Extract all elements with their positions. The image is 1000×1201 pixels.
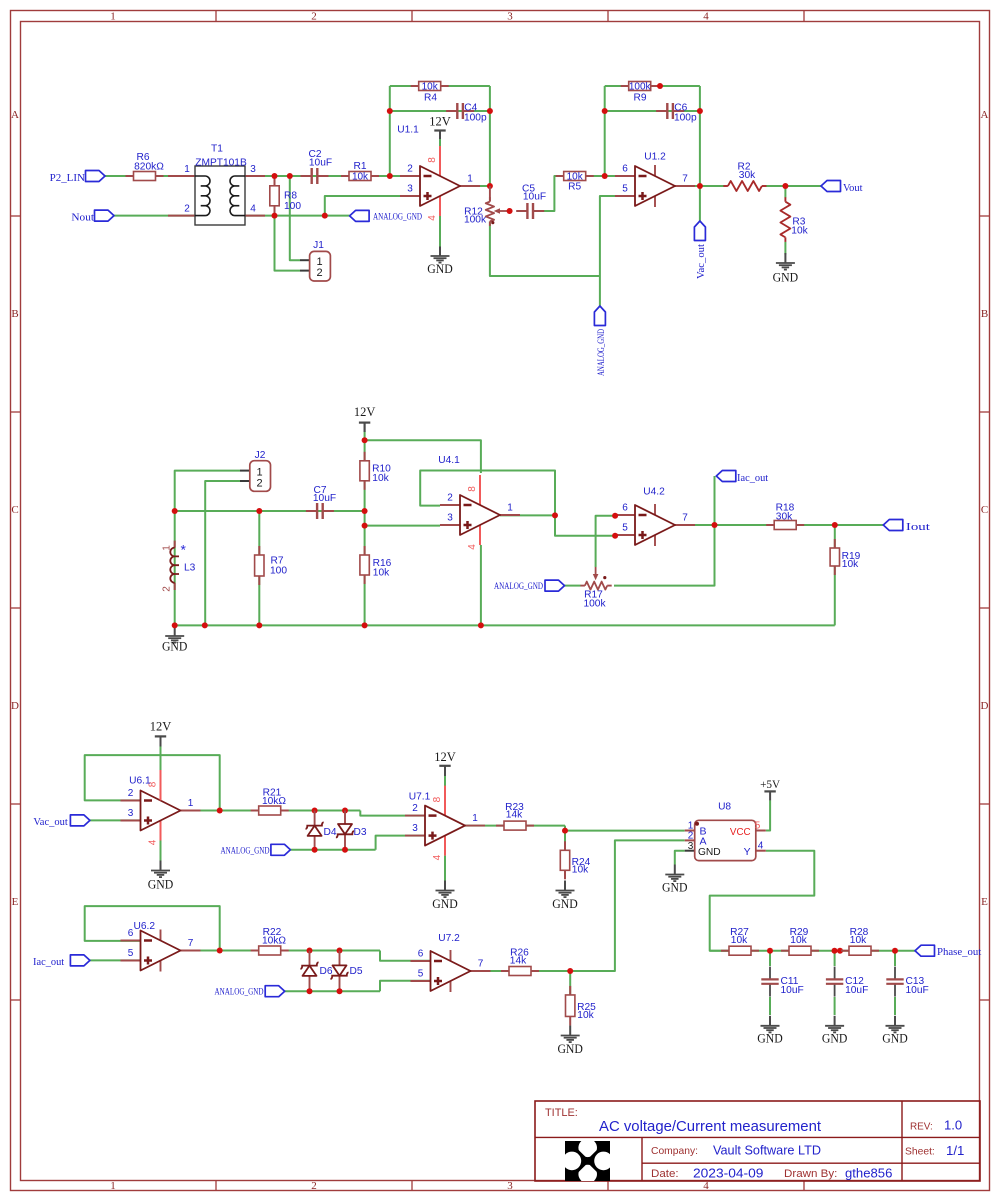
svg-text:GND: GND xyxy=(427,262,453,276)
svg-text:B: B xyxy=(981,308,988,320)
svg-text:Vout: Vout xyxy=(843,183,863,194)
svg-text:1.0: 1.0 xyxy=(944,1118,962,1133)
svg-text:100k: 100k xyxy=(464,215,487,226)
svg-text:1: 1 xyxy=(507,503,513,514)
net flag ANALOG_GND (row2) xyxy=(215,986,285,997)
wire Nout to T1 pin2 xyxy=(114,215,195,217)
svg-text:10uF: 10uF xyxy=(845,985,868,996)
junction n25 xyxy=(552,512,558,518)
svg-text:D3: D3 xyxy=(353,827,366,838)
resistor R7 xyxy=(255,546,288,585)
capacitor C13 xyxy=(886,967,928,997)
wire jog to R24 node xyxy=(564,826,566,831)
junction n10 xyxy=(602,173,608,179)
junction n27 xyxy=(612,513,618,519)
svg-text:10k: 10k xyxy=(372,473,389,484)
op-amp U6.1 xyxy=(121,771,201,846)
resistor R28 xyxy=(841,927,879,955)
svg-text:100k: 100k xyxy=(629,82,652,93)
svg-text:10uF: 10uF xyxy=(313,493,336,504)
svg-text:C: C xyxy=(981,504,988,516)
wire T1 pin4 to ANALOG_GND xyxy=(245,215,350,217)
svg-text:12V: 12V xyxy=(150,720,172,734)
wire R10-R16 column xyxy=(364,440,366,625)
svg-text:3: 3 xyxy=(250,164,256,175)
svg-text:A: A xyxy=(11,109,19,121)
connector J1 xyxy=(300,240,330,281)
ground (R25) xyxy=(557,1026,583,1057)
wire Y net to RC ladder xyxy=(710,851,815,951)
svg-text:1: 1 xyxy=(184,164,190,175)
svg-text:10k: 10k xyxy=(790,935,807,946)
wire U1.2 output to Vout a xyxy=(675,185,724,187)
junction n14 xyxy=(697,183,703,189)
resistor R9 xyxy=(621,82,659,104)
wire U1.2 feedback left xyxy=(604,86,606,176)
svg-text:D4: D4 xyxy=(323,827,336,838)
wire U4.1 pin4 to bus xyxy=(480,545,482,625)
wire R5 to U1.2 pin6 xyxy=(586,175,636,177)
svg-text:8: 8 xyxy=(467,486,478,492)
svg-text:4: 4 xyxy=(703,11,709,23)
svg-text:A: A xyxy=(700,836,707,848)
svg-text:3: 3 xyxy=(688,841,694,852)
junction n19 xyxy=(202,622,208,628)
svg-text:U1.1: U1.1 xyxy=(397,125,419,136)
wire R3 net a xyxy=(784,186,786,198)
ground (R24) xyxy=(552,881,578,912)
junction n12 xyxy=(602,108,608,114)
wire R24 column xyxy=(564,831,566,851)
ground (C11) xyxy=(757,1016,783,1046)
svg-text:30k: 30k xyxy=(739,170,756,181)
wire ANALOG_GND to R17 xyxy=(565,585,581,587)
svg-text:10k: 10k xyxy=(422,82,439,93)
svg-text:2: 2 xyxy=(311,1180,317,1192)
wire U1.2 output to Vout b xyxy=(766,185,821,187)
svg-text:3: 3 xyxy=(407,184,413,195)
junction n17 xyxy=(172,508,178,514)
power 12V (U7.1) xyxy=(434,750,456,775)
junction n40 xyxy=(307,988,313,994)
svg-text:gthe856: gthe856 xyxy=(845,1166,892,1181)
svg-text:1: 1 xyxy=(188,798,194,809)
svg-text:100p: 100p xyxy=(464,112,487,123)
svg-text:100: 100 xyxy=(270,565,287,576)
wire U4.1 feedback xyxy=(420,471,555,516)
svg-text:Company:: Company: xyxy=(651,1145,698,1157)
svg-text:2: 2 xyxy=(184,204,190,215)
svg-text:4: 4 xyxy=(432,854,443,860)
wire J2 pin1 net xyxy=(175,471,240,511)
wire U7.1 12V stub xyxy=(444,775,446,789)
resistor R21 xyxy=(251,787,289,815)
resistor R19 xyxy=(830,539,861,575)
svg-text:ANALOG_GND: ANALOG_GND xyxy=(221,845,270,855)
wire clamp bottom row 1 xyxy=(290,849,375,851)
svg-text:10k: 10k xyxy=(731,935,748,946)
svg-text:1: 1 xyxy=(110,1180,116,1192)
wire R7 column xyxy=(258,511,260,625)
potentiometer R12 xyxy=(464,197,494,226)
svg-text:*: * xyxy=(181,542,187,558)
svg-text:2: 2 xyxy=(311,11,317,23)
title block text xyxy=(545,1107,964,1181)
wire jog to U7.2 pin5 xyxy=(380,981,431,992)
power 12V (U6.1) xyxy=(150,720,172,746)
svg-text:U8: U8 xyxy=(718,802,731,813)
svg-text:E: E xyxy=(12,896,19,908)
svg-text:10k: 10k xyxy=(373,568,390,579)
capacitor C4 xyxy=(446,102,487,123)
junction n13 xyxy=(697,108,703,114)
svg-text:12V: 12V xyxy=(434,750,456,764)
svg-text:Sheet:: Sheet: xyxy=(905,1146,935,1158)
wire to U8 pin B xyxy=(565,830,685,832)
op-amp U7.1 xyxy=(405,786,485,861)
wire R9 row xyxy=(605,85,700,87)
potentiometer R17 xyxy=(580,582,611,610)
svg-text:U6.1: U6.1 xyxy=(129,776,151,787)
svg-text:D5: D5 xyxy=(349,966,362,977)
junction n42 xyxy=(567,968,573,974)
svg-text:2: 2 xyxy=(447,493,453,504)
wire Vac_out to U6.1 pin3 xyxy=(90,819,141,821)
wire U1.2 feedback right xyxy=(699,86,701,186)
svg-text:R9: R9 xyxy=(633,92,646,103)
svg-text:14k: 14k xyxy=(506,809,523,820)
wire U1.1 pin4 lower xyxy=(439,216,441,247)
junction n44 xyxy=(832,948,838,954)
net flag Vout xyxy=(821,181,863,194)
svg-text:Iac_out: Iac_out xyxy=(737,473,768,484)
svg-text:100p: 100p xyxy=(674,112,697,123)
net flag Vac_out (bottom) xyxy=(33,815,90,828)
svg-text:5: 5 xyxy=(755,821,761,832)
svg-text:2: 2 xyxy=(412,803,418,814)
wire C12 column xyxy=(834,951,836,966)
junction n5 xyxy=(387,173,393,179)
resistor R10 xyxy=(360,452,391,490)
ground (U8) xyxy=(662,865,688,895)
svg-text:5: 5 xyxy=(622,184,628,195)
svg-text:GND: GND xyxy=(162,640,188,654)
company logo xyxy=(563,1139,613,1184)
net flag ANALOG_GND (top) xyxy=(350,210,423,221)
wire R12 bottom to ANALOG_GND xyxy=(490,221,600,276)
svg-text:8: 8 xyxy=(432,796,443,802)
svg-text:100k: 100k xyxy=(583,599,606,610)
svg-text:Date:: Date: xyxy=(651,1168,679,1180)
svg-text:10kΩ: 10kΩ xyxy=(262,935,286,946)
svg-text:7: 7 xyxy=(478,959,484,970)
svg-text:10k: 10k xyxy=(352,172,369,183)
svg-text:8: 8 xyxy=(427,157,438,163)
wire Vac_out drop xyxy=(699,186,701,221)
svg-text:GND: GND xyxy=(662,880,688,894)
XOR gate U8 xyxy=(685,802,766,861)
svg-text:4: 4 xyxy=(250,204,256,215)
svg-text:5: 5 xyxy=(418,969,424,980)
wire 12V stub xyxy=(439,131,441,141)
svg-text:U7.2: U7.2 xyxy=(438,933,460,944)
svg-text:Vac_out: Vac_out xyxy=(33,817,67,828)
capacitor C7 xyxy=(306,485,336,519)
wire C11 column xyxy=(769,951,771,966)
junction n16 xyxy=(362,437,368,443)
junction n30 xyxy=(832,522,838,528)
svg-text:2023-04-09: 2023-04-09 xyxy=(693,1166,763,1181)
svg-text:U6.2: U6.2 xyxy=(134,921,156,932)
junction n38 xyxy=(307,948,313,954)
connector J2 xyxy=(240,450,271,491)
junction n33 xyxy=(342,808,348,814)
resistor R16 xyxy=(360,546,392,584)
svg-text:6: 6 xyxy=(622,164,628,175)
svg-text:3: 3 xyxy=(507,11,513,23)
svg-text:ANALOG_GND: ANALOG_GND xyxy=(596,329,606,376)
net flag Iac_out (bottom) xyxy=(33,955,90,968)
wire RC ladder row xyxy=(710,950,915,952)
op-amp U6.2 xyxy=(121,921,201,971)
svg-text:GND: GND xyxy=(557,1042,583,1056)
wire C12 lower xyxy=(834,997,836,1015)
svg-text:10k: 10k xyxy=(791,226,808,237)
wire C7 row xyxy=(175,510,365,512)
net flag Phase_out xyxy=(915,945,981,958)
junction n36 xyxy=(562,828,568,834)
wire 12V stem mid xyxy=(364,423,366,432)
svg-text:10uF: 10uF xyxy=(781,985,804,996)
resistor R3 xyxy=(780,197,808,242)
svg-text:30k: 30k xyxy=(776,512,793,523)
svg-text:D: D xyxy=(981,700,989,712)
transformer T1 ZMPT101B xyxy=(168,144,265,226)
svg-text:100: 100 xyxy=(284,201,301,212)
junction n3 xyxy=(272,213,278,219)
wire J2 pin2 net xyxy=(205,481,240,625)
junction n43 xyxy=(767,948,773,954)
junction n37 xyxy=(217,948,223,954)
ground (U6.1) xyxy=(148,861,174,892)
svg-text:2: 2 xyxy=(317,267,323,279)
svg-text:U4.2: U4.2 xyxy=(643,487,665,498)
svg-text:GND: GND xyxy=(432,897,458,911)
wire C5 to R5 xyxy=(535,176,564,211)
svg-text:1: 1 xyxy=(467,174,473,185)
junction n22 xyxy=(362,508,368,514)
inductor L3 xyxy=(162,541,196,592)
svg-text:7: 7 xyxy=(682,513,688,524)
junction n2 xyxy=(287,173,293,179)
svg-text:3: 3 xyxy=(507,1180,513,1192)
svg-text:Y: Y xyxy=(744,846,751,858)
svg-text:L3: L3 xyxy=(184,563,196,574)
svg-text:ANALOG_GND: ANALOG_GND xyxy=(494,581,543,591)
junction n18 xyxy=(172,622,178,628)
wire R17 wiper to U4.2 pin6 xyxy=(596,516,616,567)
op-amp U4.2 xyxy=(615,487,695,546)
svg-text:R5: R5 xyxy=(568,181,581,192)
wire U1.1 pin3 net xyxy=(325,196,420,216)
svg-text:+5V: +5V xyxy=(760,779,781,791)
resistor R22 xyxy=(251,927,289,955)
R17 wiper arrow xyxy=(595,567,597,576)
wire U7.1 pin4 lower xyxy=(444,856,446,881)
junction n34 xyxy=(312,847,318,853)
wire U6.2 output row xyxy=(181,950,381,952)
ground (R3) xyxy=(773,253,799,285)
net flag Vac_out (top) xyxy=(694,221,707,279)
svg-text:ANALOG_GND: ANALOG_GND xyxy=(373,211,422,221)
svg-text:10k: 10k xyxy=(572,864,589,875)
junction n41 xyxy=(337,988,343,994)
zener diode D5 xyxy=(330,951,362,992)
svg-text:1: 1 xyxy=(472,813,478,824)
wire 12V to U4.1 pin8 xyxy=(365,440,481,473)
svg-text:REV:: REV: xyxy=(910,1121,933,1133)
svg-text:6: 6 xyxy=(418,949,424,960)
wire U4.1 out to U4.2 pin5 xyxy=(555,515,615,535)
junction n20 xyxy=(256,508,262,514)
resistor R5 xyxy=(556,172,594,193)
junction n4 xyxy=(322,213,328,219)
resistor R4 xyxy=(411,82,449,104)
ground (C12) xyxy=(822,1016,848,1046)
zener diode D4 xyxy=(306,811,337,850)
wire P2_LIN to T1 pin1 xyxy=(105,175,195,177)
wire U7.1 output row xyxy=(465,825,565,827)
svg-text:J1: J1 xyxy=(313,240,324,251)
junction n1 xyxy=(272,173,278,179)
svg-text:4: 4 xyxy=(427,215,438,221)
svg-text:GND: GND xyxy=(148,877,174,891)
junction n23 xyxy=(362,523,368,529)
junction n8 xyxy=(487,183,493,189)
junction n6 xyxy=(387,108,393,114)
wire U8 pin3 gnd net xyxy=(675,851,685,865)
svg-text:12V: 12V xyxy=(429,115,451,129)
op-amp U1.2 xyxy=(615,152,695,207)
svg-text:Nout: Nout xyxy=(71,212,94,223)
net flag Iac_out (mid) xyxy=(716,471,768,484)
wire mid ground bus xyxy=(175,624,835,626)
resistor R27 xyxy=(721,927,759,955)
wire J1 pin1 net xyxy=(290,176,300,260)
svg-text:Iout: Iout xyxy=(906,522,930,533)
svg-text:E: E xyxy=(981,896,988,908)
svg-text:3: 3 xyxy=(412,823,418,834)
wire +5V to U8 VCC xyxy=(766,800,770,830)
capacitor C12 xyxy=(826,967,868,997)
svg-text:AC voltage/Current measurement: AC voltage/Current measurement xyxy=(599,1118,822,1135)
svg-text:J2: J2 xyxy=(255,450,266,461)
svg-text:Phase_out: Phase_out xyxy=(937,947,981,958)
svg-text:2: 2 xyxy=(688,831,694,842)
svg-text:ANALOG_GND: ANALOG_GND xyxy=(215,987,264,997)
svg-text:10k: 10k xyxy=(850,935,867,946)
resistor R1 xyxy=(341,161,379,182)
svg-text:12V: 12V xyxy=(354,405,376,419)
capacitor C11 xyxy=(761,967,803,997)
wire C11 lower xyxy=(769,997,771,1015)
ground (C13) xyxy=(882,1016,908,1046)
resistor R8 xyxy=(270,177,302,215)
wire U1.2 pin5 net xyxy=(600,196,616,276)
junction n24 xyxy=(362,622,368,628)
junction n15 xyxy=(782,183,788,189)
svg-text:VCC: VCC xyxy=(730,827,751,838)
op-amp U4.1 xyxy=(438,455,520,550)
svg-text:A: A xyxy=(981,109,989,121)
svg-text:2: 2 xyxy=(257,478,263,490)
wire Iac_out to U6.2 pin5 xyxy=(90,959,141,961)
svg-text:ZMPT101B: ZMPT101B xyxy=(195,158,247,169)
svg-text:5: 5 xyxy=(622,523,628,534)
svg-text:D6: D6 xyxy=(319,966,332,977)
wire clamp bottom row 2 xyxy=(285,990,380,992)
svg-text:TITLE:: TITLE: xyxy=(545,1107,578,1119)
svg-text:B: B xyxy=(11,308,18,320)
svg-text:C: C xyxy=(11,504,18,516)
power 12V (mid) xyxy=(354,405,376,432)
junction n7 xyxy=(487,108,493,114)
wire C6 row xyxy=(605,110,700,112)
junction n21 xyxy=(256,622,262,628)
net flag ANALOG_GND (mid) xyxy=(494,580,565,591)
ground (U1.1) xyxy=(427,246,453,276)
wire jog to U7.1 pin2 xyxy=(360,811,425,816)
wire C4 row xyxy=(390,110,490,112)
junction n31 xyxy=(217,808,223,814)
wire R4 row xyxy=(390,85,490,87)
svg-text:Drawn By:: Drawn By: xyxy=(784,1168,837,1180)
resistor R6 xyxy=(126,152,165,181)
wire to U8 pin A xyxy=(570,840,685,971)
title block frame xyxy=(535,1101,980,1181)
svg-text:820kΩ: 820kΩ xyxy=(134,161,164,172)
wire U1.1 output xyxy=(460,185,490,187)
svg-text:2: 2 xyxy=(407,164,413,175)
svg-text:4: 4 xyxy=(703,1180,709,1192)
svg-text:GND: GND xyxy=(773,271,799,285)
svg-text:U7.1: U7.1 xyxy=(409,792,431,803)
wire U6.1 12V stub xyxy=(160,746,162,766)
junction n32 xyxy=(312,808,318,814)
U6.1 pin8 upper xyxy=(160,764,162,771)
wire C13 column xyxy=(894,951,896,966)
wire U6.2 feedback xyxy=(85,906,220,950)
ground (U7.1) xyxy=(432,881,458,912)
wire 12V stem U7.1 xyxy=(444,766,446,776)
wire R17 to Iac_out column xyxy=(614,476,715,586)
svg-text:R4: R4 xyxy=(424,92,437,103)
net flag ANALOG_GND (row1) xyxy=(221,844,291,855)
svg-text:10k: 10k xyxy=(842,559,859,570)
svg-text:1/1: 1/1 xyxy=(946,1143,964,1158)
wire jog to U7.2 pin6 xyxy=(380,951,431,961)
svg-text:7: 7 xyxy=(682,174,688,185)
junction n45 xyxy=(837,948,843,954)
wire U6.1 feedback xyxy=(85,755,220,810)
svg-text:10kΩ: 10kΩ xyxy=(262,796,286,807)
zener diode D6 xyxy=(300,951,332,992)
wire U1.1 feedback left xyxy=(389,86,391,176)
svg-text:3: 3 xyxy=(128,808,134,819)
svg-text:10k: 10k xyxy=(577,1010,594,1021)
svg-text:U1.2: U1.2 xyxy=(644,152,666,163)
resistor R23 xyxy=(496,802,534,830)
